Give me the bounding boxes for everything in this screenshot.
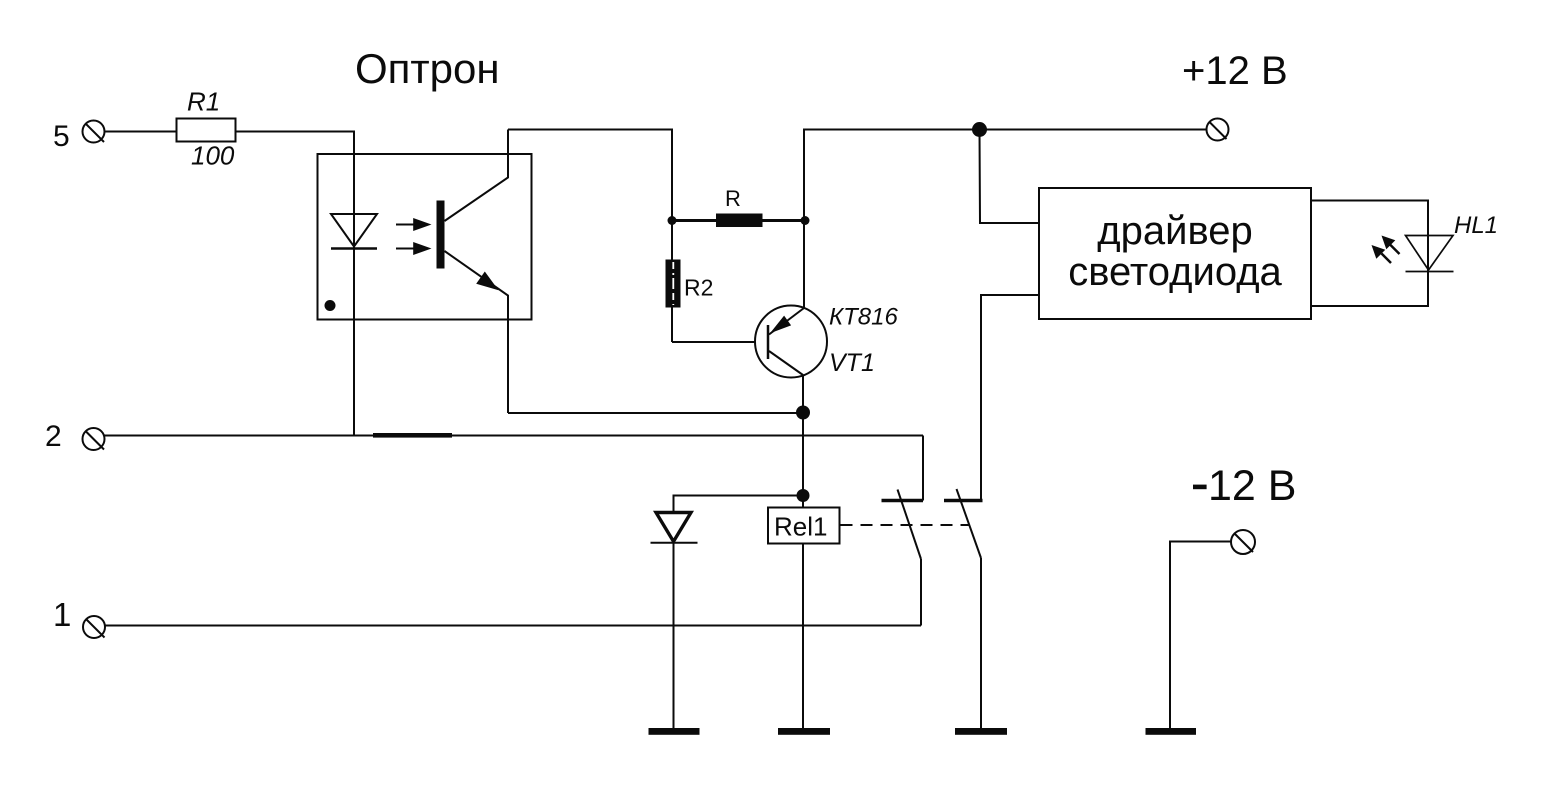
svg-text:2: 2 bbox=[45, 420, 62, 453]
svg-text:1: 1 bbox=[53, 596, 71, 633]
node B dot bbox=[797, 489, 810, 502]
svg-text:Rel1: Rel1 bbox=[774, 512, 827, 542]
terminal +12V bbox=[1207, 119, 1229, 141]
svg-text:+12 В: +12 В bbox=[1182, 49, 1288, 93]
node A dot bbox=[796, 406, 810, 420]
wire 2 bbox=[105, 435, 924, 437]
diode VD1 bbox=[651, 513, 698, 543]
resistor R bbox=[668, 214, 810, 228]
wire 1 bbox=[105, 625, 921, 627]
opto emitter line bbox=[445, 251, 509, 413]
node junction dot top bbox=[972, 122, 987, 137]
label -12 В bbox=[1193, 485, 1207, 490]
optocoupler U1 box bbox=[318, 154, 532, 320]
resistor R1 bbox=[177, 119, 236, 142]
wire 2 down to switch 1 bbox=[922, 436, 924, 501]
wire +12 rail bbox=[804, 130, 1207, 221]
svg-text:Оптрон: Оптрон bbox=[355, 45, 500, 92]
wire R1 to opto LED anode bbox=[236, 132, 355, 436]
svg-text:драйвер: драйвер bbox=[1097, 209, 1252, 253]
wire -12V to ground bbox=[1170, 542, 1231, 731]
opto emitter arrowhead bbox=[476, 272, 498, 291]
svg-text:КТ816: КТ816 bbox=[829, 304, 899, 331]
switch S2 bbox=[944, 489, 983, 730]
wire base to transistor bbox=[672, 341, 756, 343]
opto phototransistor base bar bbox=[437, 201, 445, 269]
light arrow 1 bbox=[396, 218, 432, 231]
svg-text:R: R bbox=[725, 186, 741, 211]
wire node to driver upper input bbox=[980, 130, 1040, 224]
svg-text:VT1: VT1 bbox=[829, 349, 875, 377]
light arrow 2 bbox=[396, 242, 432, 255]
opto LED bbox=[331, 214, 377, 249]
terminal 5 bbox=[83, 121, 105, 143]
wire diode branch bbox=[674, 496, 804, 513]
HL1 emission arrow 2 bbox=[1372, 245, 1392, 263]
ground (switch 2) bbox=[955, 728, 1007, 735]
wire diode to ground bbox=[673, 543, 675, 730]
resistor R2 bbox=[666, 221, 681, 343]
wire opto collector to node bbox=[508, 130, 672, 221]
ground (relay) bbox=[778, 728, 830, 735]
relay coil Rel1 bbox=[768, 508, 840, 544]
terminal -12V bbox=[1231, 530, 1255, 554]
switch S1 bbox=[882, 490, 924, 626]
svg-text:5: 5 bbox=[53, 120, 70, 153]
ground (-12V) bbox=[1146, 728, 1197, 735]
svg-text:R2: R2 bbox=[684, 275, 713, 301]
wire transistor emitter up bbox=[803, 221, 805, 309]
wire terminal5 to R1 bbox=[105, 131, 178, 133]
terminal 2 bbox=[83, 428, 105, 450]
svg-text:HL1: HL1 bbox=[1454, 212, 1498, 239]
wire node A down to node B bbox=[802, 413, 804, 496]
relay coil Rel1 wire bbox=[802, 496, 804, 731]
transistor VT1 bbox=[755, 306, 827, 378]
svg-text:12 В: 12 В bbox=[1208, 462, 1296, 510]
wire driver lower output to switch 2 bbox=[981, 295, 1039, 501]
svg-text:R1: R1 bbox=[187, 87, 220, 117]
driver box bbox=[1039, 188, 1311, 319]
HL1 emission arrow 1 bbox=[1382, 236, 1400, 255]
wire opto emitter to node A bbox=[508, 412, 803, 414]
LED HL1 bbox=[1406, 236, 1454, 272]
terminal 1 bbox=[83, 616, 105, 638]
svg-text:светодиода: светодиода bbox=[1068, 250, 1282, 294]
opto pin1 dot bbox=[325, 300, 336, 311]
wire transistor collector down bbox=[802, 375, 804, 413]
svg-text:100: 100 bbox=[191, 141, 235, 171]
ground (diode) bbox=[649, 728, 700, 735]
dashed relay link bbox=[841, 524, 971, 526]
opto collector line bbox=[445, 130, 509, 222]
wire driver to LED loop bbox=[1311, 201, 1428, 307]
wire 2 bold segment bbox=[373, 433, 452, 438]
